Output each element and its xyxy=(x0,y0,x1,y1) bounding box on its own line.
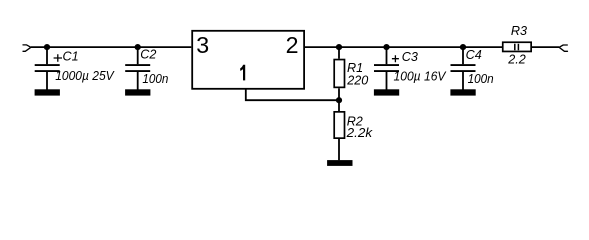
svg-text:100µ 16V: 100µ 16V xyxy=(394,69,448,83)
svg-text:C4: C4 xyxy=(466,48,482,62)
svg-text:2: 2 xyxy=(286,32,299,58)
svg-text:2.2: 2.2 xyxy=(507,53,526,67)
svg-text:100n: 100n xyxy=(142,72,168,86)
svg-text:C2: C2 xyxy=(140,48,156,62)
svg-text:3: 3 xyxy=(196,32,209,58)
svg-text:R3: R3 xyxy=(511,24,527,38)
svg-text:2.2k: 2.2k xyxy=(346,126,373,140)
svg-text:1000µ 25V: 1000µ 25V xyxy=(55,69,115,83)
svg-text:100n: 100n xyxy=(468,72,494,86)
svg-text:220: 220 xyxy=(346,73,368,87)
svg-text:C3: C3 xyxy=(402,50,418,64)
svg-text:C1: C1 xyxy=(63,49,79,63)
